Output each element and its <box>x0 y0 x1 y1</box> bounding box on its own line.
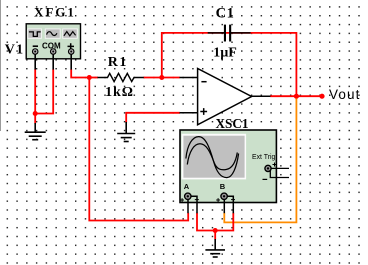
oscilloscope screen <box>182 134 247 180</box>
ground: under XFG1 <box>25 123 46 140</box>
op-amp output pin <box>252 95 271 97</box>
svg-text:XFG1: XFG1 <box>34 6 76 20</box>
XFG1 minus terminal <box>32 49 38 55</box>
label R1 value 1kOhm <box>105 85 134 100</box>
oscilloscope trace channel A (large sine) <box>186 137 239 178</box>
channel B plus mark <box>216 198 220 202</box>
oscilloscope ext trig plus mark <box>273 163 277 167</box>
function generator XFG1 body <box>26 24 80 59</box>
ground: at op-amp non-inverting input <box>117 122 135 142</box>
label R1 <box>108 55 128 70</box>
wire: feedback branch up from inverting node, across top, down to output <box>162 33 297 95</box>
label channel B <box>220 182 226 191</box>
channel B minus mark <box>231 199 235 201</box>
wire: XFG1 plus terminal to R1 node <box>71 69 89 77</box>
label V1 <box>5 42 25 57</box>
svg-text:V1: V1 <box>5 42 25 57</box>
wire: long vertical down from R1 node to scope channel A <box>89 78 188 221</box>
XFG1 plus terminal label <box>68 43 75 49</box>
XFG1 plus terminal <box>68 49 74 55</box>
label C1 value 1uF <box>213 45 237 60</box>
oscilloscope trace channel B (small sine) <box>187 144 237 170</box>
node: junction R1/C1/op-amp inverting input <box>159 75 164 80</box>
op-amp inverting input pin <box>180 77 198 79</box>
oscilloscope ext trig terminal <box>265 165 271 171</box>
op-amp plus mark <box>200 108 207 115</box>
channel A minus mark <box>195 199 199 201</box>
oscilloscope XSC1 body <box>180 130 276 203</box>
wire: XFG1 minus terminal down to ground junction <box>34 69 36 113</box>
label XSC1 <box>216 116 249 131</box>
svg-text:1µF: 1µF <box>213 45 237 60</box>
wire: op-amp output to Vout <box>270 95 322 97</box>
channel A terminal <box>185 193 191 199</box>
channel B pin stubs <box>224 196 233 213</box>
node: junction at ground of XFG1 <box>33 111 38 124</box>
XFG1 triangle-wave button <box>63 29 78 38</box>
wire: R1 right to op-amp inverting input node <box>144 77 180 79</box>
label channel A <box>184 182 190 191</box>
XFG1 pin stubs <box>35 53 71 70</box>
XFG1 COM label <box>42 42 61 51</box>
channel A pin stubs <box>188 196 197 213</box>
svg-text:XSC1: XSC1 <box>216 116 249 131</box>
wire: scope A- and B- reference terminals to ground rail <box>197 213 233 231</box>
ground: below oscilloscope <box>205 239 225 257</box>
svg-text:A: A <box>184 182 190 191</box>
op-amp non-inverting input pin <box>180 112 198 114</box>
XFG1 sine-wave button <box>45 29 60 38</box>
node: Vout terminal dot <box>319 94 324 99</box>
wire: orange from scope channel B up to output node <box>224 99 296 223</box>
channel B terminal <box>221 193 227 199</box>
XFG1 minus terminal label <box>33 45 38 47</box>
XFG1 square-wave button <box>28 29 42 38</box>
svg-text:C1: C1 <box>216 5 235 21</box>
capacitor C1 <box>208 25 251 42</box>
node: output junction <box>294 94 299 99</box>
oscilloscope ext trig minus mark <box>263 178 268 180</box>
wire: op-amp non-inverting input to ground <box>126 113 180 123</box>
svg-text:R1: R1 <box>108 55 128 70</box>
label Ext Trig <box>252 154 277 161</box>
op-amp U1 <box>198 69 252 125</box>
node: junction XFG+/R1/scope-A <box>87 75 98 80</box>
resistor R1 <box>98 73 144 81</box>
channel A plus mark <box>180 198 184 202</box>
node: junction on scope ground rail <box>213 228 218 240</box>
label XFG1 <box>34 6 76 20</box>
XFG1 COM terminal <box>50 49 56 55</box>
svg-text:1kΩ: 1kΩ <box>105 85 134 100</box>
op-amp minus mark <box>201 81 206 83</box>
svg-text:Vout: Vout <box>329 87 360 102</box>
wire: XFG1 COM terminal down and left to ground junction <box>35 69 53 113</box>
label C1 <box>216 5 235 21</box>
svg-text:Ext Trig.: Ext Trig. <box>252 154 277 161</box>
oscilloscope ext trig pin stubs <box>270 168 289 177</box>
svg-text:B: B <box>220 182 226 191</box>
label: Vout <box>329 87 360 102</box>
